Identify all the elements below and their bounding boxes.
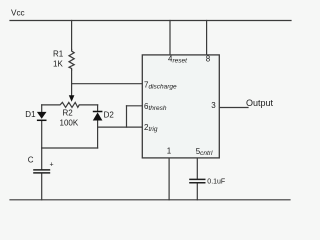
svg-text:3: 3	[211, 101, 216, 110]
wire thresh pin 6	[127, 105, 143, 107]
wire D1 cathode to bottom node	[41, 120, 43, 148]
IC U1 555 timer body	[142, 55, 219, 158]
capacitor C plates	[33, 170, 50, 173]
Vcc supply rail	[10, 20, 291, 22]
svg-text:C: C	[28, 156, 34, 165]
wire pin 8 to Vcc rail	[206, 21, 208, 55]
wire jog thresh-trig tie	[126, 106, 128, 127]
wire D2 branch down	[97, 105, 99, 112]
svg-text:1: 1	[167, 146, 172, 155]
wire D2 anode to bottom node	[97, 121, 99, 149]
capacitor 0.1uF plates	[189, 179, 205, 182]
svg-text:1K: 1K	[53, 60, 63, 69]
svg-text:+: +	[50, 161, 54, 168]
diode D2	[93, 112, 103, 121]
wire pin 4 to Vcc rail	[169, 21, 171, 55]
potentiometer R2 body	[42, 102, 98, 107]
diode D1	[37, 112, 47, 120]
wire capacitor C to ground	[41, 174, 43, 200]
ground rail	[10, 199, 290, 201]
wire output pin 3	[219, 107, 248, 109]
svg-text:0.1uF: 0.1uF	[207, 179, 225, 186]
wire D1 branch down	[41, 105, 43, 112]
wire trig pin 2	[98, 126, 143, 128]
wire pin 5 to bypass cap	[196, 158, 198, 179]
svg-text:D2: D2	[104, 111, 115, 120]
svg-text:100K: 100K	[60, 119, 79, 128]
svg-text:Output: Output	[246, 98, 274, 108]
wire bypass cap to ground	[196, 183, 198, 199]
wire pin 1 to ground	[168, 158, 170, 200]
svg-text:D1: D1	[25, 110, 36, 119]
potentiometer R2 wiper arrow shaft	[71, 84, 73, 97]
resistor R1	[69, 50, 74, 71]
wire discharge pin 7	[72, 83, 143, 85]
wire node to capacitor C	[41, 148, 43, 169]
svg-text:R1: R1	[53, 50, 64, 59]
wire R1 to discharge junction	[71, 70, 73, 84]
svg-text:8: 8	[206, 54, 211, 63]
wire bottom node D1-D2	[42, 147, 98, 149]
wire Vcc to R1	[71, 21, 73, 50]
potentiometer R2 wiper arrowhead	[69, 95, 75, 102]
svg-text:Vcc: Vcc	[11, 8, 25, 17]
svg-text:R2: R2	[63, 108, 74, 117]
